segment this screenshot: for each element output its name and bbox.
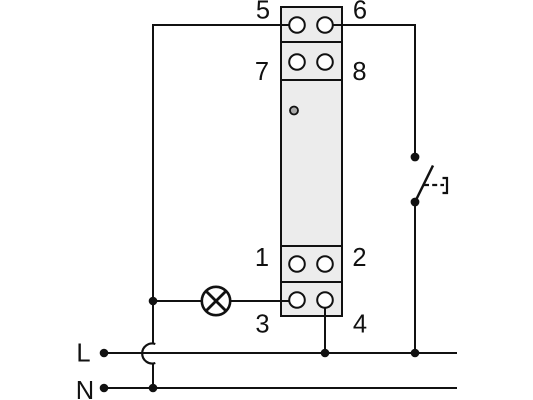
svg-text:L: L: [76, 340, 90, 368]
svg-text:4: 4: [353, 311, 367, 339]
svg-text:1: 1: [255, 244, 269, 272]
svg-text:8: 8: [352, 58, 366, 86]
svg-text:N: N: [76, 377, 94, 400]
svg-text:5: 5: [256, 0, 270, 25]
svg-text:3: 3: [255, 311, 269, 339]
svg-text:6: 6: [353, 0, 367, 25]
svg-text:7: 7: [255, 58, 269, 86]
svg-text:2: 2: [352, 244, 366, 272]
